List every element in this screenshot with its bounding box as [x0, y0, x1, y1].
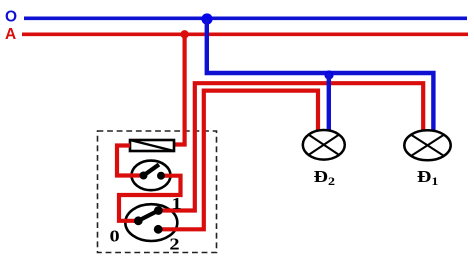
- svg-text:0: 0: [110, 227, 120, 246]
- svg-text:O: O: [5, 8, 17, 25]
- switch K2 body (two-way switch): [125, 204, 177, 241]
- enclosure (dashed box around fuse and switches): [98, 131, 217, 253]
- wire: switch 2 terminal 2 to lamp D2: [158, 91, 318, 230]
- wire: switch 2 terminal 1 to lamp D1: [158, 83, 423, 210]
- lamp D1: [404, 130, 450, 160]
- wire: fuse to switch 1: [117, 146, 142, 176]
- svg-text:2: 2: [169, 235, 179, 254]
- svg-text:1: 1: [171, 195, 181, 214]
- wire: blue branch down to lamp D2: [327, 73, 331, 131]
- switch K2 lever and contacts (terminals 0-1-2): [134, 206, 163, 234]
- junction dot on O line: [201, 13, 212, 24]
- svg-text:A: A: [5, 26, 16, 43]
- svg-text:Đ1: Đ1: [417, 168, 438, 188]
- switch K1 body (single-pole switch): [132, 161, 171, 191]
- wire: phase line A (red horizontal): [22, 32, 468, 36]
- junction dot on blue lamp feed run: [324, 70, 333, 79]
- junction dot on A line: [180, 30, 188, 38]
- wire: red drop from A line to fuse: [174, 34, 185, 144]
- wire: blue drop from O line to lamp feed run: [207, 19, 434, 131]
- wire: switch 1 to switch 2 common: [119, 176, 181, 221]
- switch K1 lever and contacts: [140, 165, 166, 180]
- wire: neutral line O (blue horizontal): [24, 16, 467, 20]
- svg-text:Đ2: Đ2: [314, 168, 335, 188]
- fuse F1: [130, 140, 174, 151]
- lamp D2: [303, 130, 345, 160]
